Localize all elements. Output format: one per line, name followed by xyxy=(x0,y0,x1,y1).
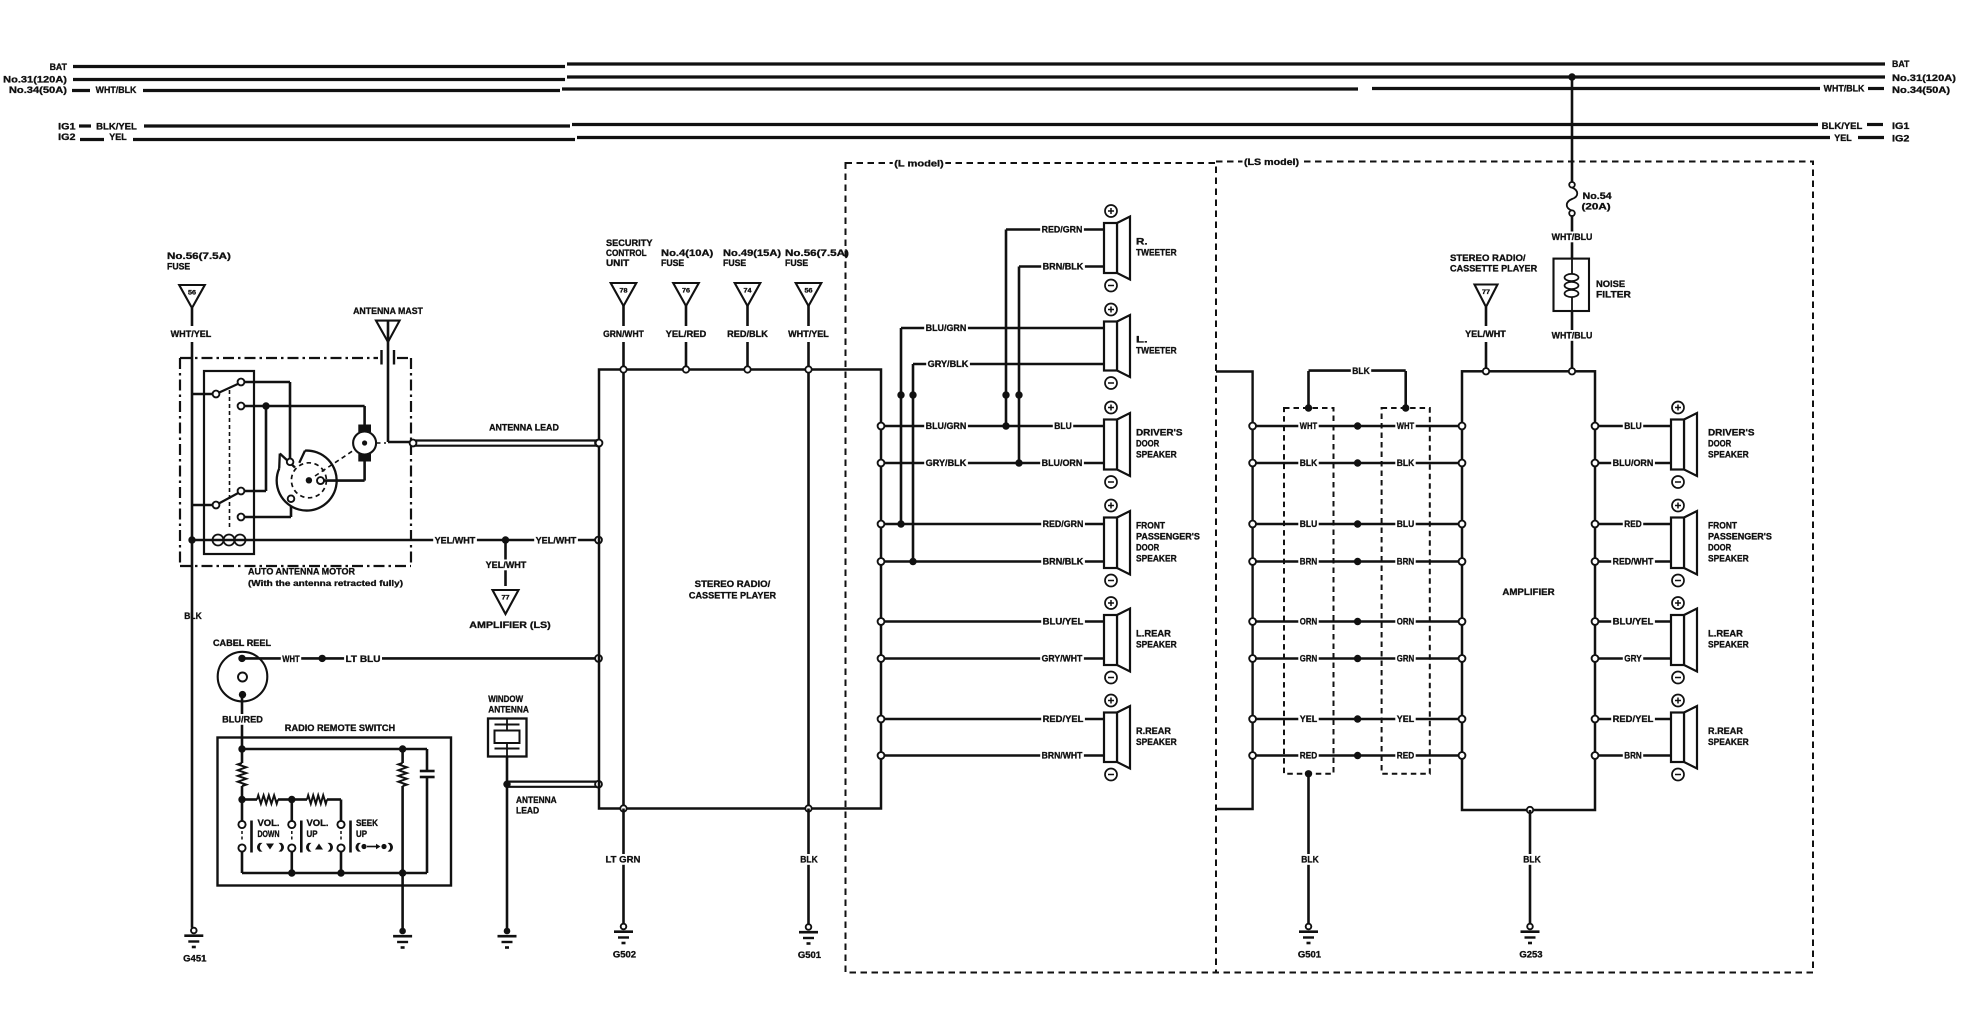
svg-text:WHT: WHT xyxy=(282,654,300,664)
svg-text:SPEAKER: SPEAKER xyxy=(1708,737,1749,747)
svg-text:No.34(50A): No.34(50A) xyxy=(9,85,67,95)
svg-text:GRY/BLK: GRY/BLK xyxy=(928,359,969,369)
svg-text:GRY/BLK: GRY/BLK xyxy=(926,458,967,468)
svg-text:G451: G451 xyxy=(183,954,206,964)
svg-text:SEEK: SEEK xyxy=(356,818,379,828)
svg-text:BLU: BLU xyxy=(1624,421,1642,431)
svg-text:RED: RED xyxy=(1624,519,1642,529)
svg-text:ANTENNA LEAD: ANTENNA LEAD xyxy=(489,423,559,433)
svg-text:WHT/BLK: WHT/BLK xyxy=(96,85,137,95)
svg-text:ORN: ORN xyxy=(1397,617,1415,627)
svg-text:IG1: IG1 xyxy=(58,122,75,132)
svg-text:WHT/BLU: WHT/BLU xyxy=(1552,232,1593,242)
svg-text:UNIT: UNIT xyxy=(606,258,630,268)
svg-text:CABEL REEL: CABEL REEL xyxy=(213,638,271,648)
svg-text:BLU: BLU xyxy=(1300,519,1318,529)
svg-text:No.31(120A): No.31(120A) xyxy=(1892,73,1956,83)
svg-text:GRY: GRY xyxy=(1624,654,1642,664)
svg-text:WINDOW: WINDOW xyxy=(488,694,523,704)
svg-text:WHT: WHT xyxy=(1300,421,1318,431)
svg-text:L.REAR: L.REAR xyxy=(1136,629,1171,639)
svg-text:GRY/WHT: GRY/WHT xyxy=(1042,654,1083,664)
svg-text:BLK/YEL: BLK/YEL xyxy=(96,122,137,132)
svg-text:SPEAKER: SPEAKER xyxy=(1708,553,1749,563)
svg-text:SPEAKER: SPEAKER xyxy=(1136,640,1177,650)
svg-text:RED: RED xyxy=(1300,751,1318,761)
svg-text:RED/GRN: RED/GRN xyxy=(1043,519,1084,529)
svg-text:GRN/WHT: GRN/WHT xyxy=(603,329,644,339)
svg-text:AUTO ANTENNA MOTOR: AUTO ANTENNA MOTOR xyxy=(248,567,355,577)
svg-text:BRN: BRN xyxy=(1397,557,1415,567)
svg-text:STEREO RADIO/: STEREO RADIO/ xyxy=(1450,253,1526,263)
svg-text:BLU/GRN: BLU/GRN xyxy=(926,421,967,431)
svg-text:FRONT: FRONT xyxy=(1136,520,1165,530)
svg-text:No.56(7.5A): No.56(7.5A) xyxy=(785,248,849,258)
svg-text:GRN: GRN xyxy=(1397,654,1415,664)
svg-text:RED: RED xyxy=(1397,751,1415,761)
svg-text:NOISE: NOISE xyxy=(1596,279,1625,289)
svg-text:CASSETTE PLAYER: CASSETTE PLAYER xyxy=(1450,264,1537,274)
svg-text:G502: G502 xyxy=(613,950,636,960)
svg-text:WHT/YEL: WHT/YEL xyxy=(171,329,212,339)
svg-text:BLU/YEL: BLU/YEL xyxy=(1043,617,1084,627)
svg-text:BLK/YEL: BLK/YEL xyxy=(1822,121,1863,131)
svg-text:WHT/BLU: WHT/BLU xyxy=(1552,331,1593,341)
svg-text:): ) xyxy=(388,842,394,852)
svg-text:PASSENGER'S: PASSENGER'S xyxy=(1708,531,1772,541)
svg-text:R.REAR: R.REAR xyxy=(1136,726,1171,736)
svg-text:YEL/WHT: YEL/WHT xyxy=(536,536,577,546)
svg-text:No.54: No.54 xyxy=(1583,191,1613,201)
svg-text:BLK: BLK xyxy=(800,855,818,865)
svg-text:SPEAKER: SPEAKER xyxy=(1136,450,1177,460)
svg-text:ANTENNA: ANTENNA xyxy=(488,705,529,715)
svg-text:BLK: BLK xyxy=(1301,855,1319,865)
svg-text:BLK: BLK xyxy=(1397,458,1415,468)
svg-text:L.REAR: L.REAR xyxy=(1708,629,1743,639)
svg-text:BRN/BLK: BRN/BLK xyxy=(1043,262,1084,272)
svg-text:LT GRN: LT GRN xyxy=(606,855,641,865)
svg-text:): ) xyxy=(328,842,334,852)
svg-text:VOL.: VOL. xyxy=(307,818,329,828)
svg-text:ANTENNA: ANTENNA xyxy=(516,795,557,805)
svg-text:ANTENNA MAST: ANTENNA MAST xyxy=(353,306,423,316)
svg-text:RED/YEL: RED/YEL xyxy=(1613,714,1654,724)
svg-text:No.34(50A): No.34(50A) xyxy=(1892,85,1950,95)
svg-text:YEL: YEL xyxy=(1397,714,1415,724)
svg-text:UP: UP xyxy=(356,829,367,839)
svg-text:WHT: WHT xyxy=(1397,421,1415,431)
svg-text:FUSE: FUSE xyxy=(167,262,190,272)
svg-text:IG1: IG1 xyxy=(1892,121,1909,131)
svg-text:FUSE: FUSE xyxy=(661,258,684,268)
svg-text:G501: G501 xyxy=(798,950,821,960)
svg-text:78: 78 xyxy=(620,288,629,295)
svg-text:BRN: BRN xyxy=(1300,557,1318,567)
svg-text:BRN/BLK: BRN/BLK xyxy=(1043,557,1084,567)
svg-text:FUSE: FUSE xyxy=(785,258,808,268)
svg-text:RED/WHT: RED/WHT xyxy=(1613,557,1654,567)
svg-text:BAT: BAT xyxy=(1892,59,1910,69)
svg-text:(LS model): (LS model) xyxy=(1244,157,1299,167)
svg-text:56: 56 xyxy=(188,290,197,297)
svg-text:BLU/RED: BLU/RED xyxy=(222,715,263,725)
svg-text:R.REAR: R.REAR xyxy=(1708,726,1743,736)
svg-text:76: 76 xyxy=(682,288,691,295)
svg-text:(With the antenna retracted fu: (With the antenna retracted fully) xyxy=(248,578,403,588)
svg-text:IG2: IG2 xyxy=(1892,134,1909,144)
svg-text:BRN: BRN xyxy=(1624,751,1642,761)
svg-text:RED/BLK: RED/BLK xyxy=(727,329,768,339)
svg-text:BLK: BLK xyxy=(1300,458,1318,468)
svg-text:FILTER: FILTER xyxy=(1596,290,1631,300)
svg-text:BAT: BAT xyxy=(50,62,68,72)
svg-text:DOOR: DOOR xyxy=(1708,542,1731,552)
svg-text:YEL/WHT: YEL/WHT xyxy=(486,560,527,570)
svg-text:CONTROL: CONTROL xyxy=(606,248,647,258)
svg-text:YEL: YEL xyxy=(1834,133,1852,143)
svg-text:L.: L. xyxy=(1136,335,1148,345)
svg-text:UP: UP xyxy=(307,829,318,839)
svg-text:G253: G253 xyxy=(1519,950,1542,960)
svg-text:BLU/GRN: BLU/GRN xyxy=(926,323,967,333)
svg-text:RED/YEL: RED/YEL xyxy=(1043,714,1084,724)
svg-text:YEL: YEL xyxy=(109,132,127,142)
svg-text:FRONT: FRONT xyxy=(1708,520,1737,530)
svg-text:No.49(15A): No.49(15A) xyxy=(723,248,781,258)
svg-text:LT BLU: LT BLU xyxy=(346,654,381,664)
svg-text:RADIO REMOTE SWITCH: RADIO REMOTE SWITCH xyxy=(285,723,396,733)
svg-text:PASSENGER'S: PASSENGER'S xyxy=(1136,531,1200,541)
svg-text:DOWN: DOWN xyxy=(258,829,280,839)
svg-text:BLU: BLU xyxy=(1054,421,1072,431)
svg-text:YEL/WHT: YEL/WHT xyxy=(435,536,476,546)
svg-text:(20A): (20A) xyxy=(1582,202,1611,212)
svg-text:WHT/BLK: WHT/BLK xyxy=(1824,84,1865,94)
svg-text:YEL/RED: YEL/RED xyxy=(666,329,707,339)
svg-text:GRN: GRN xyxy=(1300,654,1318,664)
svg-text:BLK: BLK xyxy=(1352,366,1370,376)
svg-text:DRIVER'S: DRIVER'S xyxy=(1708,428,1755,438)
svg-text:BLU/ORN: BLU/ORN xyxy=(1042,458,1083,468)
svg-text:DOOR: DOOR xyxy=(1708,439,1731,449)
svg-text:SPEAKER: SPEAKER xyxy=(1136,553,1177,563)
svg-text:56: 56 xyxy=(805,288,814,295)
svg-text:ORN: ORN xyxy=(1300,617,1318,627)
svg-text:IG2: IG2 xyxy=(58,132,75,142)
svg-text:YEL: YEL xyxy=(1300,714,1318,724)
svg-text:WHT/YEL: WHT/YEL xyxy=(788,329,829,339)
svg-text:): ) xyxy=(279,842,285,852)
svg-text:74: 74 xyxy=(744,288,753,295)
svg-text:R.: R. xyxy=(1136,237,1148,247)
svg-text:77: 77 xyxy=(1482,289,1491,296)
svg-text:VOL.: VOL. xyxy=(258,818,280,828)
svg-text:AMPLIFIER: AMPLIFIER xyxy=(1502,587,1555,597)
svg-text:CASSETTE PLAYER: CASSETTE PLAYER xyxy=(689,591,776,601)
svg-text:BLU/ORN: BLU/ORN xyxy=(1613,458,1654,468)
svg-text:STEREO RADIO/: STEREO RADIO/ xyxy=(695,579,771,589)
svg-text:RED/GRN: RED/GRN xyxy=(1042,225,1083,235)
svg-text:No.56(7.5A): No.56(7.5A) xyxy=(167,251,231,261)
svg-text:YEL/WHT: YEL/WHT xyxy=(1465,329,1506,339)
svg-text:(: ( xyxy=(257,842,263,852)
svg-text:No.4(10A): No.4(10A) xyxy=(661,248,713,258)
svg-text:TWEETER: TWEETER xyxy=(1136,346,1177,356)
svg-text:No.31(120A): No.31(120A) xyxy=(3,75,67,85)
svg-text:(: ( xyxy=(306,842,312,852)
svg-text:BLU/YEL: BLU/YEL xyxy=(1613,617,1654,627)
svg-text:FUSE: FUSE xyxy=(723,258,746,268)
svg-text:SPEAKER: SPEAKER xyxy=(1136,737,1177,747)
svg-text:SPEAKER: SPEAKER xyxy=(1708,450,1749,460)
svg-text:SPEAKER: SPEAKER xyxy=(1708,640,1749,650)
svg-text:SECURITY: SECURITY xyxy=(606,238,653,248)
svg-text:BLK: BLK xyxy=(1523,855,1541,865)
svg-text:G501: G501 xyxy=(1298,950,1321,960)
svg-text:DRIVER'S: DRIVER'S xyxy=(1136,428,1183,438)
svg-text:TWEETER: TWEETER xyxy=(1136,248,1177,258)
svg-text:(: ( xyxy=(355,842,361,852)
svg-text:(L model): (L model) xyxy=(894,159,944,169)
svg-text:DOOR: DOOR xyxy=(1136,542,1159,552)
svg-text:77: 77 xyxy=(502,595,511,602)
svg-text:LEAD: LEAD xyxy=(516,806,539,816)
svg-text:DOOR: DOOR xyxy=(1136,439,1159,449)
svg-text:BLU: BLU xyxy=(1397,519,1415,529)
svg-text:AMPLIFIER (LS): AMPLIFIER (LS) xyxy=(469,620,550,630)
svg-text:BRN/WHT: BRN/WHT xyxy=(1042,751,1083,761)
